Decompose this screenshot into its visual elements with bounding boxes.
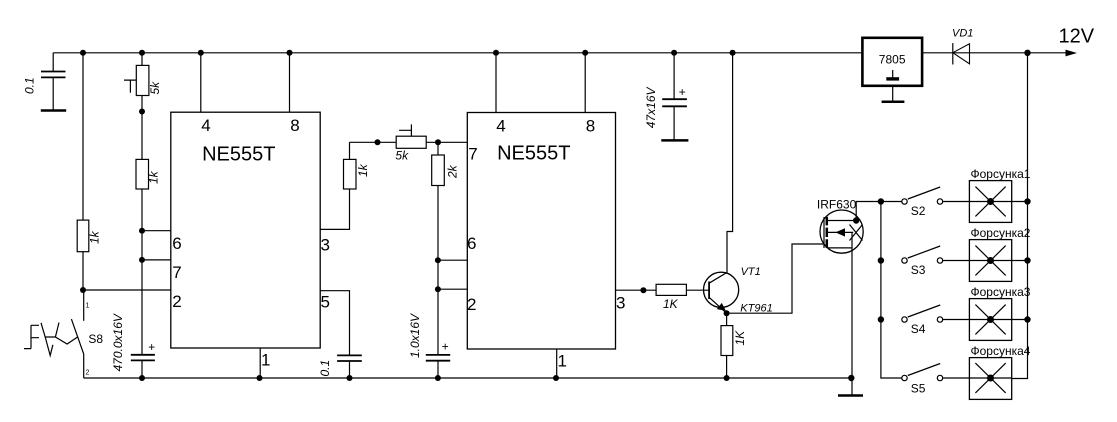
svg-text:NE555T: NE555T: [202, 143, 275, 165]
svg-text:3: 3: [321, 236, 330, 255]
svg-text:Форсунка3: Форсунка3: [971, 285, 1031, 299]
svg-text:5k: 5k: [395, 149, 409, 163]
svg-text:8: 8: [586, 116, 595, 135]
svg-text:Форсунка1: Форсунка1: [971, 167, 1031, 181]
svg-text:1.0x16V: 1.0x16V: [408, 313, 422, 358]
svg-text:+: +: [148, 340, 155, 354]
svg-text:1: 1: [558, 352, 567, 371]
svg-text:47x16V: 47x16V: [644, 87, 658, 129]
svg-text:0.1: 0.1: [23, 77, 37, 94]
svg-text:6: 6: [172, 234, 181, 253]
svg-text:0.1: 0.1: [318, 360, 332, 377]
svg-text:S8: S8: [88, 332, 103, 346]
svg-text:6: 6: [467, 234, 476, 253]
svg-text:Форсунка4: Форсунка4: [971, 344, 1031, 358]
svg-text:5: 5: [321, 293, 330, 312]
svg-text:1k: 1k: [356, 163, 370, 177]
svg-text:S3: S3: [911, 263, 926, 277]
svg-text:+: +: [442, 340, 449, 354]
svg-text:7805: 7805: [879, 52, 906, 66]
svg-text:3: 3: [616, 294, 625, 313]
svg-text:5k: 5k: [148, 81, 162, 95]
svg-text:4: 4: [496, 116, 505, 135]
svg-text:7: 7: [468, 145, 477, 164]
svg-text:1K: 1K: [663, 297, 679, 311]
svg-text:2: 2: [467, 295, 476, 314]
svg-text:2k: 2k: [446, 164, 460, 179]
svg-text:1: 1: [86, 303, 90, 310]
svg-text:2: 2: [172, 292, 181, 311]
svg-text:12V: 12V: [1059, 26, 1095, 48]
svg-text:1: 1: [261, 351, 270, 370]
svg-text:470.0x16V: 470.0x16V: [111, 313, 125, 371]
svg-text:1k: 1k: [147, 170, 161, 184]
svg-text:1k: 1k: [88, 230, 102, 244]
svg-text:VD1: VD1: [952, 28, 973, 40]
svg-text:Форсунка2: Форсунка2: [971, 226, 1031, 240]
svg-text:4: 4: [201, 116, 210, 135]
svg-text:+: +: [679, 85, 686, 99]
svg-text:S2: S2: [911, 204, 926, 218]
svg-text:1K: 1K: [733, 330, 747, 346]
svg-text:NE555T: NE555T: [497, 143, 570, 165]
svg-text:2: 2: [86, 370, 90, 377]
svg-text:8: 8: [290, 116, 299, 135]
svg-text:S5: S5: [911, 382, 926, 396]
svg-text:IRF630: IRF630: [817, 198, 857, 212]
svg-text:VT1: VT1: [741, 266, 761, 278]
svg-text:S4: S4: [911, 322, 926, 336]
svg-text:7: 7: [172, 263, 181, 282]
